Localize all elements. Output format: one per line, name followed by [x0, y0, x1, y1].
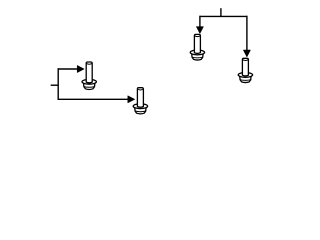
wire: left vertical: [57, 68, 59, 100]
bolt B3 shaft: [194, 34, 200, 53]
bolt B2 shaft top rim: [137, 88, 143, 91]
bolt B4 (right group, right): [238, 58, 252, 82]
arrow to bolt B3: [196, 27, 203, 34]
wire: left-bottom horizontal: [58, 98, 130, 100]
bolt B1 shaft: [86, 62, 92, 83]
bolt B1 (upper-left group): [82, 62, 96, 89]
bolt B3 shaft top rim: [194, 35, 200, 38]
arrow to bolt B1: [77, 65, 84, 72]
wire: right-left vertical: [199, 16, 201, 27]
bolt B2 shaft: [137, 88, 143, 108]
bolt B1 shaft top rim: [86, 62, 92, 65]
wire: left-top horizontal: [58, 68, 79, 70]
arrow to bolt B2: [128, 96, 135, 103]
arrow to bolt B4: [243, 50, 250, 57]
bolt B3 (right group, left): [190, 34, 204, 60]
bolt B4 shaft top rim: [242, 59, 248, 62]
wire: left stub: [51, 84, 59, 86]
wire: right horizontal: [200, 15, 247, 17]
wire: right-top stub: [220, 8, 222, 16]
bolt B4 shaft: [242, 58, 248, 76]
bolt B2 (lower-left group): [133, 88, 147, 114]
wire: right-right vertical: [246, 16, 248, 51]
